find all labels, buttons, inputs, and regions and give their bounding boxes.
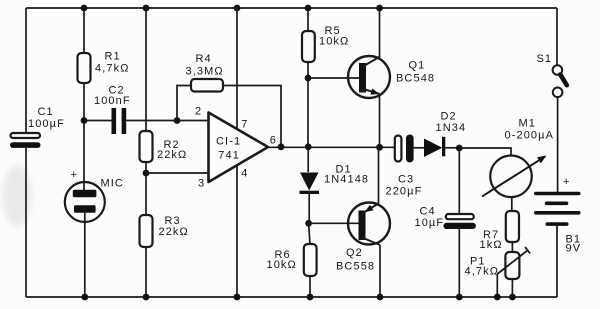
diode D2 1N34 [424, 111, 466, 158]
svg-text:1N34: 1N34 [436, 122, 467, 134]
wire R5 top [307, 8, 309, 31]
wire D1 to Q2 base node [308, 194, 310, 223]
svg-text:6: 6 [270, 135, 277, 147]
wire left column upper [25, 8, 27, 133]
wire C2 left lead [84, 120, 112, 122]
capacitor C4 [415, 206, 476, 230]
wire R1 column top [83, 8, 85, 53]
wire R2 column top [145, 8, 147, 131]
node top rail R5 [305, 5, 312, 12]
svg-text:4,7kΩ: 4,7kΩ [465, 266, 500, 278]
resistor R6 [267, 244, 317, 276]
op-amp U1 CI-1 741 [195, 106, 277, 190]
node R5 Q1 base junction [305, 75, 312, 82]
node D2/C4/M1 junction [456, 145, 463, 152]
svg-text:9V: 9V [566, 243, 582, 255]
node output D1 junction [305, 143, 312, 150]
wire node to R6 [309, 223, 310, 244]
svg-text:22kΩ: 22kΩ [157, 149, 187, 161]
wire R4 right lead [223, 86, 281, 147]
resistor R7 [480, 211, 520, 251]
node top rail Q1 collector [376, 5, 383, 12]
svg-text:D2: D2 [441, 111, 457, 123]
svg-text:Q1: Q1 [409, 60, 426, 72]
wire S1 to battery [557, 97, 559, 192]
svg-text:220µF: 220µF [386, 186, 423, 198]
svg-text:R4: R4 [196, 53, 212, 65]
svg-text:7: 7 [241, 119, 248, 131]
wire meter to R7 [511, 197, 513, 211]
capacitor C1 [10, 106, 65, 148]
wire MIC to bottom rail [84, 213, 86, 297]
potentiometer P1 [465, 247, 531, 279]
svg-text:100nF: 100nF [94, 95, 131, 107]
svg-text:BC548: BC548 [396, 73, 435, 85]
wire R7 to P1 [511, 242, 513, 252]
svg-text:R1: R1 [105, 51, 121, 63]
wire Q2 emitter to output line [378, 147, 380, 204]
node pin 4 bottom rail [234, 294, 241, 301]
node R4 left junction [174, 117, 181, 124]
wire P1 to bottom rail [511, 279, 513, 297]
node top rail / R1 column [81, 5, 88, 12]
svg-text:4,7kΩ: 4,7kΩ [95, 63, 130, 75]
node output Q1/Q2 junction [376, 144, 383, 151]
svg-text:Q2: Q2 [346, 247, 363, 259]
svg-text:S1: S1 [537, 53, 553, 65]
transistor Q1 BC548 [348, 56, 435, 98]
switch S1 [537, 53, 567, 97]
svg-text:MIC: MIC [101, 178, 124, 190]
svg-text:10µF: 10µF [415, 217, 445, 229]
wire pin 3 [146, 172, 209, 174]
resistor R2 [140, 131, 188, 162]
wire D2 to C4 node [445, 147, 459, 149]
wire Q2 base [309, 222, 359, 224]
svg-text:10kΩ: 10kΩ [319, 36, 349, 48]
wire R3 to bottom rail [145, 247, 147, 297]
wire bottom rail [26, 296, 557, 298]
node C4 bottom rail [456, 294, 463, 301]
wire P1 wiper to bottom rail [496, 274, 498, 297]
svg-text:22kΩ: 22kΩ [159, 226, 189, 238]
resistor R1 [78, 51, 130, 84]
wire Q1 emitter to output line [379, 95, 381, 147]
resistor R4 [186, 53, 224, 92]
wire R4 left lead [177, 86, 191, 121]
svg-text:1kΩ: 1kΩ [480, 239, 503, 251]
node R6 bottom rail [307, 294, 314, 301]
svg-text:1N4148: 1N4148 [324, 174, 369, 186]
wire R6 to bottom rail [309, 276, 311, 297]
wire Q2 collector to bottom rail [379, 245, 381, 297]
node MIC bottom rail [81, 294, 88, 301]
wire R5 node to output line [307, 78, 309, 147]
svg-text:C1: C1 [38, 106, 54, 118]
node D1/R6/Q2 base junction [305, 220, 312, 227]
node R3 bottom rail [143, 294, 150, 301]
capacitor C3 [386, 135, 423, 198]
node top rail / R2 column [143, 5, 150, 12]
svg-text:0-200µA: 0-200µA [505, 130, 555, 142]
svg-text:3: 3 [198, 178, 205, 190]
resistor R5 [302, 25, 349, 62]
wire right column top [556, 8, 558, 65]
diode D1 1N4148 [300, 164, 370, 195]
wire pin 7 [236, 8, 238, 130]
wire C2 to pin 2 [126, 120, 208, 122]
wire battery to bottom rail [556, 226, 558, 297]
wire node to C4 [458, 148, 460, 214]
svg-text:3,3MΩ: 3,3MΩ [186, 65, 224, 77]
transistor Q2 BC558 [336, 203, 390, 273]
svg-text:4: 4 [241, 168, 248, 180]
node P1 bottom rail [509, 294, 516, 301]
wire top rail [26, 7, 557, 9]
svg-text:M1: M1 [519, 118, 536, 130]
wire output pin 6 [266, 146, 395, 148]
wire output to D1 [307, 147, 309, 172]
wire pin 4 [236, 166, 238, 298]
node output R4 junction [278, 143, 285, 150]
svg-text:BC558: BC558 [336, 261, 375, 273]
svg-text:CI-1: CI-1 [216, 136, 241, 148]
capacitor C2 [94, 85, 131, 135]
resistor R3 [140, 215, 189, 247]
svg-text:C4: C4 [420, 206, 436, 218]
svg-text:+: + [71, 169, 79, 181]
svg-text:C3: C3 [398, 173, 414, 185]
wire R5 bottom [307, 62, 309, 78]
node R2/R3 pin3 junction [143, 170, 150, 177]
battery B1 [534, 176, 581, 255]
node R1/C2 junction [81, 117, 88, 124]
wire left column lower [25, 148, 27, 297]
svg-text:+: + [563, 176, 571, 188]
svg-text:741: 741 [218, 150, 240, 162]
node P1 wiper bottom rail [494, 294, 501, 301]
microphone MIC [65, 169, 124, 222]
svg-text:2: 2 [195, 106, 202, 118]
node Q2 bottom rail [377, 294, 384, 301]
wire Q1 base [308, 77, 359, 79]
svg-text:100µF: 100µF [28, 118, 65, 130]
wire node to meter [459, 148, 511, 156]
wire R2 to R3 [145, 162, 147, 215]
wire R1 to MIC [83, 83, 85, 190]
wire Q1 collector [379, 8, 381, 57]
meter M1 [482, 118, 554, 198]
wire C3 to D2 [414, 147, 424, 149]
node top rail pin 7 [234, 5, 241, 12]
svg-text:10kΩ: 10kΩ [267, 259, 297, 271]
wire C4 to bottom rail [458, 229, 460, 297]
